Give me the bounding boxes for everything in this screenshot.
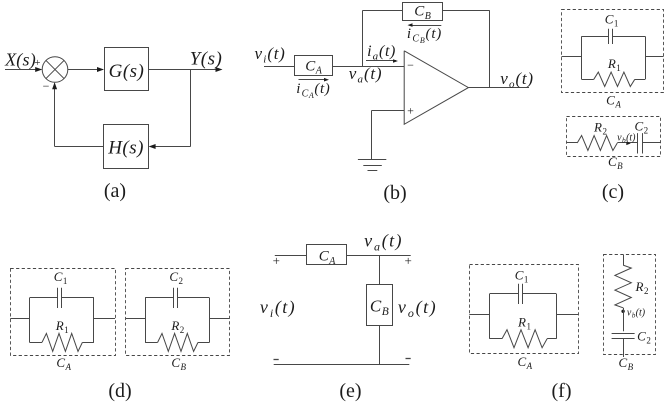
svg-text:−: − <box>407 58 414 72</box>
svg-text:H(s): H(s) <box>107 138 144 159</box>
svg-text:(e): (e) <box>339 380 361 402</box>
svg-text:(d): (d) <box>108 380 131 402</box>
svg-text:(c): (c) <box>602 181 624 203</box>
svg-text:X(s): X(s) <box>4 50 36 71</box>
svg-text:vi(t): vi(t) <box>260 297 296 320</box>
svg-text:vb(t): vb(t) <box>617 133 636 145</box>
svg-text:+: + <box>273 253 280 268</box>
svg-text:vo(t): vo(t) <box>500 69 533 91</box>
svg-text:vi(t): vi(t) <box>255 44 286 66</box>
svg-text:va(t): va(t) <box>364 231 403 254</box>
svg-text:ia(t): ia(t) <box>367 43 396 63</box>
svg-text:Y(s): Y(s) <box>190 49 223 70</box>
svg-text:vb(t): vb(t) <box>627 308 646 320</box>
svg-text:vo(t): vo(t) <box>398 297 437 320</box>
svg-text:−: − <box>43 79 50 93</box>
svg-text:G(s): G(s) <box>109 61 145 82</box>
svg-text:va(t): va(t) <box>349 64 382 86</box>
svg-text:(a): (a) <box>104 180 126 202</box>
svg-text:(b): (b) <box>383 182 406 204</box>
svg-text:+: + <box>407 104 414 118</box>
svg-text:+: + <box>34 57 40 69</box>
svg-text:+: + <box>405 253 412 268</box>
svg-text:(f): (f) <box>552 380 572 402</box>
